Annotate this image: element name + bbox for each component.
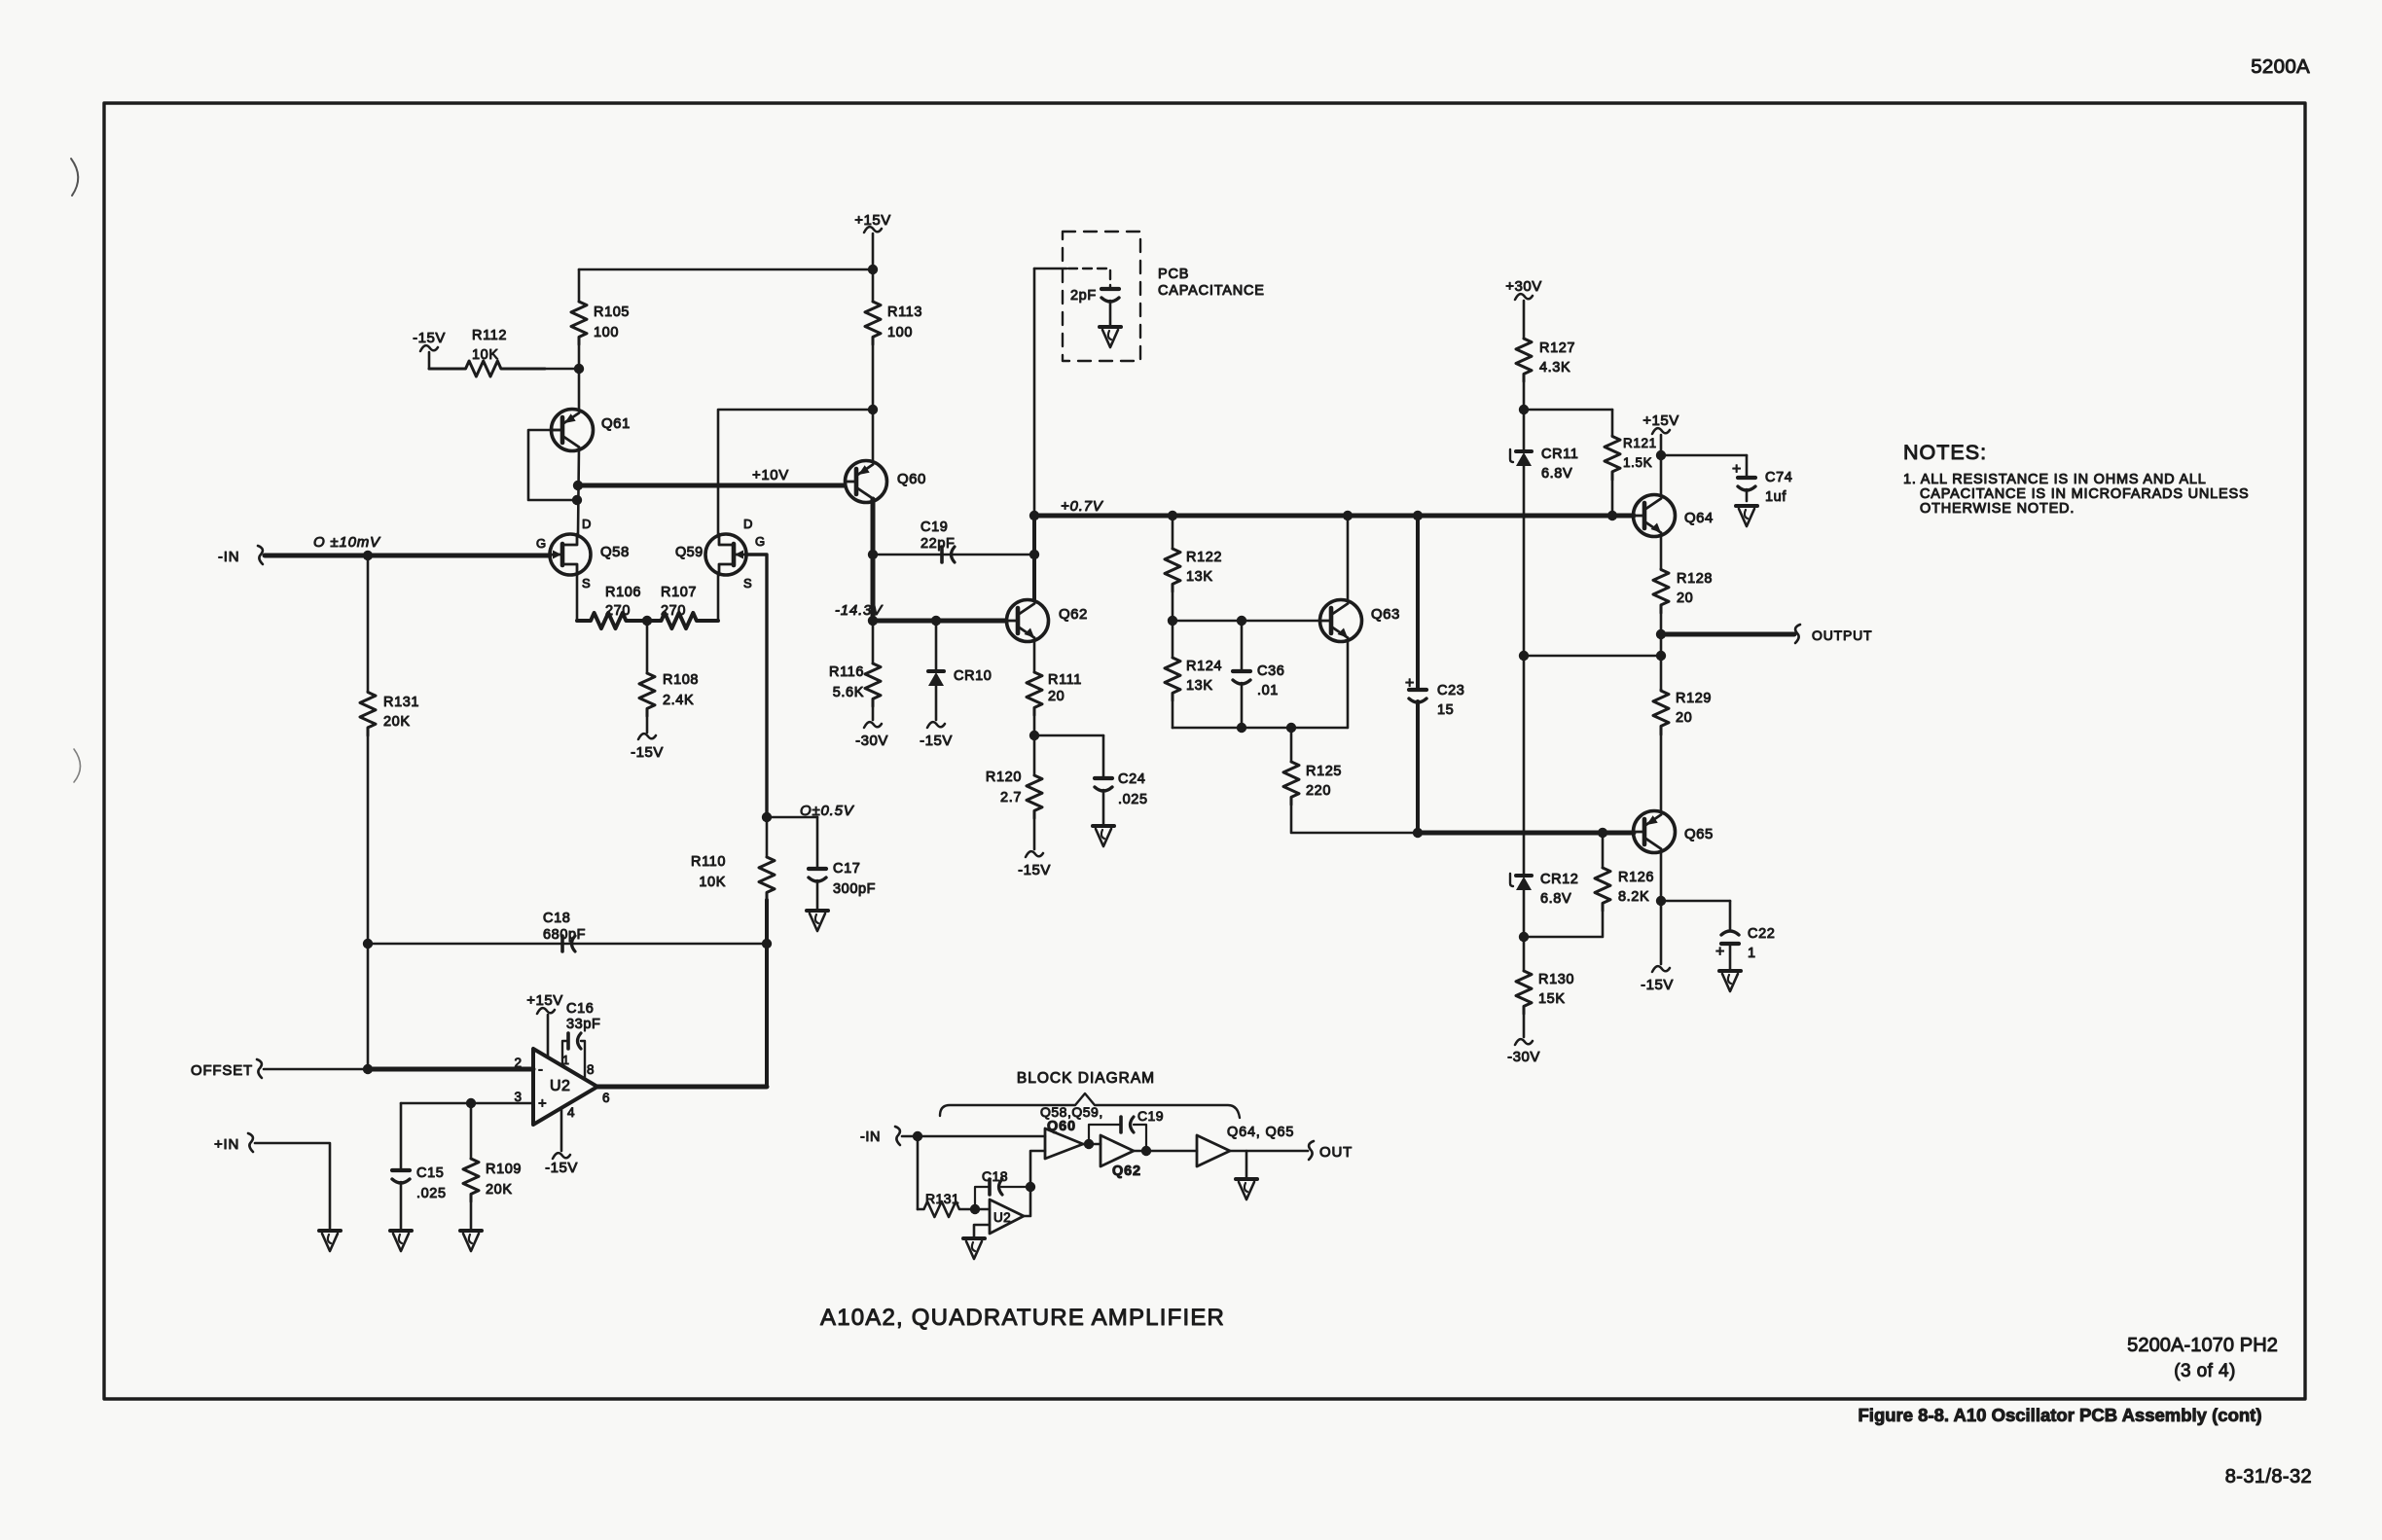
svg-text:-15V: -15V [413, 330, 446, 346]
wire C23 bottom [1416, 701, 1420, 833]
wire Q62 emitter to R111 [1033, 642, 1036, 672]
svg-text:100: 100 [887, 325, 913, 340]
svg-text:5200A: 5200A [2251, 55, 2310, 78]
resistor R110 [766, 817, 769, 857]
wire U2 plus input to ground (block) [974, 1225, 990, 1236]
wire to C74 [1661, 454, 1747, 457]
svg-text:Figure 8-8. A10 Oscillator PCB: Figure 8-8. A10 Oscillator PCB Assembly … [1859, 1405, 2262, 1425]
transistor Q63 [1320, 600, 1362, 642]
ground (C24) [1093, 824, 1114, 828]
wire bottom line R124 to Q63 emitter [1173, 727, 1347, 730]
capacitor C23 [1409, 688, 1426, 692]
wire Q63 emitter down [1347, 642, 1350, 728]
node C19 left [868, 550, 878, 559]
node bus at Q62 column [1029, 511, 1039, 520]
svg-text:20: 20 [1048, 689, 1065, 704]
node bus at R122 [1168, 511, 1177, 520]
wire R112 to Q61 node [545, 368, 579, 371]
wire Q61 base loop [528, 430, 577, 500]
svg-text:R109: R109 [486, 1162, 522, 1177]
wire U2 output [597, 1085, 767, 1090]
capacitor C24 [1102, 735, 1105, 777]
svg-text:C19: C19 [1137, 1108, 1164, 1124]
wire R108 node down [646, 621, 649, 673]
node CR10 top [931, 616, 941, 626]
wire output node down [1660, 634, 1663, 656]
capacitor C36 [1241, 621, 1244, 670]
svg-text:6: 6 [602, 1091, 610, 1105]
resistor R121 [1611, 410, 1614, 436]
svg-text:CAPACITANCE IS IN MICROFARADS: CAPACITANCE IS IN MICROFARADS UNLESS [1920, 486, 2249, 502]
svg-text:-30V: -30V [855, 733, 888, 749]
power -15V (R120) [1033, 818, 1036, 849]
node bus at Q63 [1343, 511, 1353, 520]
svg-text:+: + [1715, 944, 1724, 960]
left margin punch mark lower [74, 749, 81, 782]
svg-text:6.8V: 6.8V [1540, 891, 1571, 907]
node CR11 bottom line [1519, 651, 1529, 661]
svg-text:C17: C17 [833, 861, 860, 877]
svg-text:Q63: Q63 [1371, 606, 1400, 623]
svg-text:+15V: +15V [1642, 412, 1678, 429]
connector OUTPUT [1795, 625, 1800, 643]
svg-text:R130: R130 [1538, 972, 1574, 987]
wire Q60 collector down [871, 499, 876, 555]
svg-text:CR12: CR12 [1540, 872, 1578, 887]
capacitor C74 [1746, 455, 1749, 477]
svg-text:2pF: 2pF [1070, 288, 1097, 304]
wire Q58 source to R106 [576, 575, 579, 621]
wire top rail down to R105 [578, 269, 581, 302]
transistor Q58 (FET) [550, 534, 591, 575]
wire R129 to Q65 emitter [1660, 734, 1663, 811]
svg-text:-: - [538, 1061, 543, 1078]
svg-text:R106: R106 [605, 585, 641, 600]
wire R107 to Q59 source [717, 575, 720, 621]
svg-text:PCB: PCB [1158, 267, 1189, 282]
svg-text:R127: R127 [1539, 340, 1575, 356]
svg-text:-15V: -15V [1641, 977, 1674, 993]
node amp1 output [1084, 1139, 1094, 1149]
node R105/R112 junction [574, 364, 584, 374]
resistor R124 [1172, 621, 1174, 658]
wire Q60 collector to -14.3V node [871, 555, 876, 621]
svg-text:S: S [743, 576, 752, 591]
power -30V (R116) [872, 706, 875, 720]
svg-text:.025: .025 [1118, 792, 1148, 807]
power -15V (R108) [646, 716, 649, 733]
op-amp U2 [533, 1049, 597, 1125]
svg-text:15: 15 [1437, 702, 1454, 718]
svg-text:O ±10mV: O ±10mV [313, 534, 381, 551]
svg-text:680pF: 680pF [543, 927, 586, 943]
svg-text:-IN: -IN [218, 549, 239, 565]
resistor R116 [865, 663, 881, 706]
resistor R120 [1033, 735, 1036, 775]
svg-text:C19: C19 [920, 519, 948, 535]
wire -14.3V line to Q62 base [873, 619, 1006, 624]
wire Q59 drain up and over to R113 node [718, 410, 873, 534]
node top rail junction [868, 265, 878, 274]
svg-text:.025: .025 [416, 1186, 447, 1201]
svg-text:22pF: 22pF [920, 536, 955, 552]
node lower bus at C23 [1413, 828, 1423, 838]
ground (block output) [1236, 1177, 1257, 1181]
wire -IN branch down to R131 (block) [917, 1136, 920, 1209]
svg-text:R111: R111 [1048, 672, 1082, 688]
svg-text:G: G [536, 536, 546, 551]
svg-text:R125: R125 [1306, 764, 1342, 779]
capacitor 2pF (pcb) [1101, 287, 1119, 291]
svg-text:+10V: +10V [752, 467, 789, 483]
wire CR11 node down to CR12 [1523, 656, 1526, 875]
connector +IN [248, 1133, 253, 1152]
node base line left [1168, 616, 1177, 626]
transistor Q65 [1634, 811, 1676, 853]
node Q61 base loop [572, 495, 582, 505]
wire R116 top [872, 621, 875, 663]
wire CR11 top [1523, 410, 1526, 450]
svg-text:CR10: CR10 [954, 668, 992, 684]
svg-text:OTHERWISE NOTED.: OTHERWISE NOTED. [1920, 501, 2075, 517]
power -30V (R130) [1523, 1014, 1526, 1037]
wire Q63 collector to bus [1347, 516, 1350, 599]
ground (C22) [1719, 969, 1741, 973]
capacitor C22 [1729, 901, 1732, 931]
wire pcb cap stub [1034, 268, 1066, 270]
wire R125 to lower bus [1291, 805, 1418, 833]
svg-text:R128: R128 [1677, 571, 1713, 587]
svg-text:13K: 13K [1186, 569, 1213, 585]
node bus at C23 [1413, 511, 1423, 520]
svg-text:C36: C36 [1257, 663, 1284, 679]
svg-text:-15V: -15V [1018, 862, 1051, 878]
svg-text:2: 2 [514, 1056, 522, 1070]
node Q65 collector / C22 [1656, 896, 1666, 906]
wire Q63 base line [1173, 620, 1319, 623]
svg-text:1.5K: 1.5K [1623, 455, 1652, 470]
wire C22 to ground [1729, 944, 1732, 969]
wire CR10 top [935, 621, 938, 671]
svg-text:+15V: +15V [526, 992, 562, 1009]
wire node to R121 [1524, 409, 1612, 412]
wire R127 to node [1523, 381, 1526, 410]
wire U2 noninverting input [401, 1102, 533, 1105]
node amp2 output [1141, 1146, 1151, 1156]
svg-text:220: 220 [1306, 783, 1331, 799]
wire to C17 [767, 816, 817, 819]
resistor R112 [429, 361, 545, 376]
svg-text:5.6K: 5.6K [833, 685, 864, 700]
svg-text:R112: R112 [472, 328, 507, 343]
wire top rail R105 to R113 [579, 269, 873, 271]
svg-text:G: G [755, 534, 765, 549]
svg-text:8: 8 [587, 1062, 595, 1077]
capacitor C18 line [368, 943, 767, 946]
svg-text:OUT: OUT [1319, 1144, 1353, 1161]
svg-text:OFFSET: OFFSET [191, 1062, 253, 1079]
wire dashed lead to 2pF cap [1068, 269, 1110, 288]
svg-text:A10A2, QUADRATURE AMPLIFIER: A10A2, QUADRATURE AMPLIFIER [820, 1305, 1225, 1331]
svg-text:+15V: +15V [854, 212, 890, 229]
svg-text:33pF: 33pF [566, 1017, 600, 1032]
svg-text:U2: U2 [993, 1210, 1011, 1225]
svg-text:Q61: Q61 [601, 415, 631, 432]
transistor Q62 [1007, 600, 1049, 642]
node R131/C18 (block) [970, 1204, 980, 1214]
wire R113 down to node [872, 344, 875, 410]
svg-text:8-31/8-32: 8-31/8-32 [2225, 1466, 2312, 1487]
wire R126 bottom to CR12 node [1524, 911, 1603, 937]
wire R109 to ground [470, 1201, 473, 1229]
svg-text:R122: R122 [1186, 550, 1222, 565]
node -IN / R131 [363, 551, 373, 560]
wire lower bus to Q65 base [1418, 831, 1634, 836]
wire R122 to base line [1172, 591, 1174, 621]
wire U2 output up to amp1 (block) [1024, 1151, 1045, 1216]
svg-text:20: 20 [1676, 710, 1692, 726]
svg-text:Q58: Q58 [600, 544, 630, 560]
resistor R125 [1290, 728, 1293, 762]
amplifier Q58,Q59,Q60 (block) [1045, 1128, 1083, 1159]
resistor R108 [639, 673, 655, 716]
node C18 right (block) [1026, 1182, 1035, 1192]
svg-text:R121: R121 [1623, 436, 1657, 450]
svg-text:C24: C24 [1118, 771, 1145, 787]
left margin punch mark upper [71, 159, 78, 196]
wire R131 to offset node [367, 735, 370, 1069]
svg-text:2.4K: 2.4K [663, 693, 694, 708]
brace over block diagram [940, 1093, 1240, 1118]
svg-text:+30V: +30V [1505, 278, 1541, 295]
wire block ground stub [1245, 1151, 1248, 1177]
wire C23 top [1416, 516, 1420, 689]
transistor Q61 [552, 410, 594, 451]
wire Q59 gate to feedback column [746, 555, 767, 817]
wire OUTPUT [1661, 632, 1794, 637]
wire to C22 [1661, 900, 1730, 903]
wire R110 down to op-amp output [765, 900, 769, 1087]
capacitor C19 (block) loop [1089, 1125, 1121, 1144]
capacitor C17 [816, 817, 819, 868]
ground (C74) [1736, 504, 1757, 508]
connector -IN (block) [895, 1127, 900, 1145]
svg-text:R126: R126 [1618, 870, 1654, 885]
node OUTPUT [1656, 629, 1666, 639]
node bus at R121 [1607, 511, 1617, 520]
node R125 top [1286, 723, 1296, 733]
svg-text:Q60: Q60 [897, 471, 926, 487]
node R129 top [1656, 651, 1666, 661]
resistor R129 [1660, 656, 1663, 690]
resistor R131 (block) [918, 1201, 973, 1217]
capacitor C15 [400, 1103, 403, 1169]
node C19 right [1029, 550, 1039, 559]
svg-text:BLOCK DIAGRAM: BLOCK DIAGRAM [1017, 1070, 1155, 1087]
svg-text:20K: 20K [486, 1182, 513, 1198]
svg-text:R116: R116 [829, 664, 864, 680]
svg-text:C15: C15 [416, 1165, 444, 1181]
node +15V / C74 [1656, 450, 1666, 460]
resistor R122 [1172, 516, 1174, 549]
node R113/Q59 drain [868, 405, 878, 414]
resistor R127 [1516, 339, 1532, 381]
wire C15 to ground [400, 1182, 403, 1229]
wire C24 to ground [1102, 790, 1105, 824]
zener CR12 [1516, 874, 1532, 877]
svg-text:-14.3V: -14.3V [835, 602, 884, 619]
svg-text:R105: R105 [594, 304, 630, 320]
wire C74 to ground [1746, 489, 1749, 501]
diode CR10 [928, 669, 944, 673]
zener CR11 [1516, 449, 1532, 453]
wire pcb capacitance column [1033, 269, 1036, 516]
wire CR11 to output-line node [1523, 466, 1526, 656]
ground (R109) [460, 1229, 482, 1233]
resistor R106 [577, 613, 647, 628]
wire C17 to ground [816, 880, 819, 909]
svg-text:NOTES:: NOTES: [1903, 441, 1987, 464]
svg-text:100: 100 [594, 325, 619, 340]
node CR12/R126/R130 [1519, 932, 1529, 942]
svg-text:2.7: 2.7 [1000, 790, 1022, 806]
svg-text:R110: R110 [691, 854, 726, 870]
svg-text:+: + [538, 1095, 547, 1112]
node R106/R107/R108 [642, 616, 652, 626]
wire CR12 to node [1523, 890, 1526, 937]
wire amp2 to amp3 [1134, 1150, 1197, 1153]
node OFFSET/R131 [363, 1064, 373, 1074]
svg-text:1: 1 [1748, 946, 1756, 961]
ground (C17) [807, 909, 828, 913]
node 0±0.5V [762, 812, 772, 822]
svg-text:-15V: -15V [920, 733, 953, 749]
resistor R105 [571, 302, 587, 344]
wire Q65 collector down [1660, 853, 1663, 901]
power -15V (CR10) [935, 686, 938, 720]
resistor R131 [367, 555, 370, 692]
wire OFFSET node to U2 inverting input [368, 1067, 533, 1072]
svg-text:(3 of 4): (3 of 4) [2174, 1361, 2235, 1381]
node R127/CR11/R121 [1519, 405, 1529, 414]
wire +0.7V bus [1034, 514, 1634, 519]
wire amp1 to amp2 [1083, 1143, 1101, 1146]
svg-text:+0.7V: +0.7V [1061, 498, 1104, 515]
svg-text:CR11: CR11 [1541, 447, 1578, 462]
svg-text:300pF: 300pF [833, 881, 876, 897]
svg-text:C16: C16 [566, 1001, 594, 1017]
wire +10V rail [578, 483, 845, 488]
wire node to C24 [1034, 734, 1103, 737]
svg-text:Q60: Q60 [1047, 1119, 1076, 1134]
wire +IN to ground [255, 1143, 330, 1229]
wire Q62 collector up to bus [1032, 516, 1036, 599]
amplifier U2 (block) [990, 1200, 1024, 1234]
wire R105 to R112 node [578, 344, 581, 369]
ground (+IN) [319, 1229, 341, 1233]
svg-text:CAPACITANCE: CAPACITANCE [1158, 283, 1265, 299]
capacitor C19 line [873, 554, 1034, 556]
svg-text:6.8V: 6.8V [1541, 466, 1572, 482]
svg-text:C23: C23 [1437, 683, 1464, 698]
connector OUT [1309, 1141, 1314, 1160]
svg-text:10K: 10K [699, 875, 726, 890]
page border frame [104, 103, 2305, 1399]
svg-text:270: 270 [605, 603, 631, 619]
svg-text:Q59: Q59 [675, 545, 704, 560]
node -14.3V [868, 616, 878, 626]
svg-text:Q58,Q59,: Q58,Q59, [1040, 1104, 1103, 1120]
svg-text:4.3K: 4.3K [1539, 360, 1570, 376]
wire -15V stub [428, 352, 431, 369]
svg-text:+: + [1405, 675, 1414, 692]
wire Q61 emitter down to Q58 drain [578, 448, 579, 534]
svg-text:Q62: Q62 [1059, 606, 1088, 623]
power -15V (Q65) [1660, 901, 1663, 964]
wire R131 to U2 (block) [975, 1208, 990, 1211]
svg-text:+IN: +IN [214, 1136, 239, 1153]
node -IN branch [913, 1131, 922, 1141]
node C18 right [762, 939, 772, 949]
svg-text:R108: R108 [663, 672, 699, 688]
power -15V (U2) [553, 1153, 570, 1159]
wire amp3 to OUT [1230, 1150, 1308, 1153]
svg-text:20K: 20K [383, 714, 411, 730]
svg-text:-15V: -15V [631, 744, 664, 761]
wire R128 to output node [1660, 613, 1663, 634]
node C18 left [363, 939, 373, 949]
node C36 bottom [1237, 723, 1246, 733]
node R126 top [1598, 828, 1607, 838]
resistor R113 [872, 269, 875, 302]
transistor Q59 (FET) [705, 534, 746, 575]
wire R124 to bottom line [1172, 700, 1174, 728]
wire OFFSET to node [264, 1068, 368, 1071]
resistor R107 [647, 613, 718, 628]
transistor Q64 [1634, 495, 1676, 537]
wire +15V to node [1660, 435, 1663, 455]
svg-text:Q65: Q65 [1684, 826, 1714, 842]
wire node to Q60 emitter [872, 410, 875, 461]
resistor R109 [470, 1103, 473, 1159]
svg-text:D: D [743, 517, 753, 531]
ground (C15) [390, 1229, 412, 1233]
connector OFFSET [257, 1059, 262, 1078]
svg-text:1. ALL RESISTANCE IS IN OHMS A: 1. ALL RESISTANCE IS IN OHMS AND ALL [1903, 472, 2207, 487]
wire Q64 emitter to R128 [1660, 537, 1663, 569]
wire node to Q61 collector [578, 369, 581, 410]
svg-text:270: 270 [661, 603, 686, 619]
svg-text:R131: R131 [925, 1191, 959, 1206]
wire R121 to bus [1611, 480, 1614, 516]
svg-text:Q62: Q62 [1112, 1164, 1141, 1179]
wire -IN to amp1 [902, 1135, 1045, 1138]
pcb capacitance dashed box [1063, 232, 1140, 361]
amplifier Q62 (block) [1101, 1135, 1134, 1166]
resistor R111 [1027, 672, 1042, 715]
svg-text:R120: R120 [986, 770, 1022, 785]
wire 2pF to ground [1109, 301, 1112, 325]
svg-text:C18: C18 [543, 911, 570, 926]
svg-text:Q64, Q65: Q64, Q65 [1227, 1125, 1294, 1140]
svg-text:R107: R107 [661, 585, 697, 600]
ground (block U2) [963, 1236, 985, 1240]
wire +15V node to Q64 collector [1660, 455, 1663, 495]
wire -IN to Q58 gate [265, 554, 550, 558]
ground (pcb cap) [1100, 325, 1121, 329]
svg-text:8.2K: 8.2K [1618, 889, 1649, 905]
svg-text:C74: C74 [1765, 470, 1792, 485]
